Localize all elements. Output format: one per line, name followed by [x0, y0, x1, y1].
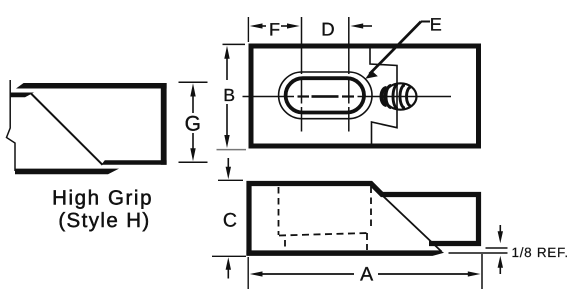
- svg-text:(Style H): (Style H): [58, 209, 150, 232]
- left side view: break line (zigzag left edge): [7, 80, 16, 171]
- svg-text:G: G: [185, 113, 201, 136]
- bottom view: outline (left, top, step, right): [249, 184, 479, 256]
- svg-text:High Grip: High Grip: [52, 187, 153, 210]
- svg-text:E: E: [430, 15, 442, 35]
- top view: thread symbol left cap: [382, 88, 387, 105]
- bottom view: ramp diagonal: [373, 187, 442, 252]
- left side view: bottom edge upper-right bar: [101, 160, 166, 164]
- bottom view: bottom edge with wedge tip: [246, 250, 444, 256]
- dimension D: right-side arrow pointing left: [360, 25, 372, 27]
- dimension C: top extension tick: [218, 179, 243, 181]
- top view: centerline thick middle dash: [312, 95, 339, 98]
- left side view: top edge lower-left bar: [10, 93, 35, 98]
- dimension G: top extension tick: [179, 81, 208, 83]
- top view: thread symbol crest arcs: [386, 84, 411, 108]
- dimension 1/8 REF: upper tick: [486, 247, 508, 249]
- dimension A: left extension line: [247, 257, 249, 289]
- dimension C: bottom arrow (outside, pointing up): [227, 268, 229, 279]
- svg-text:F: F: [269, 19, 280, 39]
- svg-text:D: D: [321, 18, 334, 39]
- top view: horizontal centerline right segment: [358, 96, 452, 98]
- bottom view: hidden dashed pocket floor: [279, 233, 368, 236]
- left side view: bottom edge lower-left bar: [15, 169, 119, 175]
- dimension B: arrow up: [226, 58, 228, 81]
- dimension 1/8 REF: lower tick: [449, 252, 508, 254]
- left side view: top edge upper-right bar: [16, 83, 167, 89]
- dimension B: arrow down: [226, 104, 228, 136]
- top view: extension line at left edge: [247, 17, 249, 42]
- dimension G: arrow line down: [192, 133, 194, 149]
- svg-text:1/8 REF.: 1/8 REF.: [512, 245, 569, 260]
- top view: outer slot obround: [279, 72, 372, 119]
- dimension 1/8 REF: upper arrow pointing down: [499, 225, 501, 232]
- bottom view: hidden dashed left stub: [284, 240, 286, 247]
- dimension C: top arrow (outside, pointing down): [227, 158, 229, 168]
- dimension B: bottom extension tick: [217, 149, 247, 151]
- top view: broken-out section zigzag around thread: [370, 46, 397, 144]
- dimension A: line with arrows: [261, 273, 354, 275]
- top view: inner slot obround: [286, 78, 364, 112]
- bottom view: hidden dashed slot left vertical: [278, 187, 280, 235]
- dimension B: top extension tick: [223, 43, 246, 45]
- top view: rectangle outline: [251, 46, 479, 146]
- dimension 1/8 REF: lower arrow pointing up: [499, 268, 501, 275]
- top view: thread symbol envelope: [385, 83, 417, 109]
- leader E: arrowhead: [365, 70, 378, 79]
- bottom view: hidden dashed step vertical: [370, 187, 372, 230]
- leader E: horizontal tail: [421, 21, 430, 23]
- top view: hole 1 centerline vertical: [301, 17, 303, 132]
- top view: centerline cross dash at hole 2: [342, 95, 354, 97]
- svg-text:B: B: [223, 85, 235, 105]
- dimension C: bottom extension tick: [212, 255, 246, 257]
- dimension G: arrow line up: [192, 96, 194, 113]
- top view: hole 2 centerline vertical: [348, 17, 350, 132]
- leader E: diagonal line: [370, 22, 422, 75]
- left side view: right edge: [161, 83, 167, 165]
- dimension A: right extension line: [481, 254, 483, 289]
- bottom view: hidden dashed right stub: [366, 233, 368, 250]
- svg-text:C: C: [223, 210, 237, 232]
- svg-text:A: A: [360, 264, 373, 286]
- dimension F: right arrow: [281, 25, 290, 27]
- top view: horizontal centerline left segment: [243, 96, 295, 98]
- dimension G: bottom extension tick: [179, 161, 208, 163]
- left side view: grip diagonal: [31, 94, 103, 165]
- dimension F: left arrow: [258, 25, 266, 27]
- top view: centerline cross dash at hole 1: [298, 95, 310, 97]
